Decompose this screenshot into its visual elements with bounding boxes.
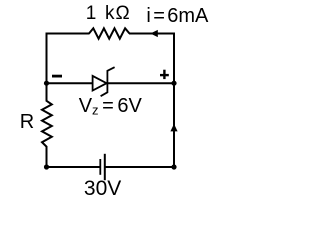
wire middle-left (zener anode side) bbox=[47, 82, 94, 84]
zener diode triangle bbox=[93, 76, 107, 91]
label minus (zener left polarity) bbox=[52, 75, 62, 78]
wire bottom-left segment bbox=[46, 166, 100, 168]
wire left vertical lower bbox=[46, 146, 48, 168]
wire top-right segment bbox=[129, 33, 175, 35]
arrowhead for current i (points left) bbox=[150, 30, 158, 37]
node junction right-middle bbox=[171, 81, 176, 86]
node junction left-middle bbox=[44, 81, 49, 86]
label R bbox=[20, 111, 34, 134]
zener diode cathode bar with bent ends bbox=[101, 67, 115, 96]
label 30V bbox=[84, 177, 121, 201]
wire top-left segment bbox=[46, 33, 90, 35]
label Vz = 6V bbox=[79, 95, 142, 118]
label plus (zener right polarity) bbox=[160, 74, 169, 76]
arrowhead up (right branch current) bbox=[170, 124, 177, 132]
resistor R (vertical zigzag) bbox=[42, 101, 52, 147]
wire middle-right (zener cathode side) bbox=[107, 82, 174, 84]
battery V1 negative plate (short bar) bbox=[99, 159, 101, 175]
resistor R1 1 kΩ (horizontal zigzag) bbox=[89, 28, 130, 38]
label 1 kΩ bbox=[86, 3, 131, 25]
battery V1 positive plate (long bar) bbox=[104, 154, 106, 180]
wire bottom-right segment bbox=[105, 166, 175, 168]
node junction left-bottom bbox=[44, 164, 49, 169]
label i = 6mA bbox=[146, 5, 208, 28]
wire right vertical bbox=[173, 33, 175, 169]
node junction right-bottom bbox=[171, 164, 176, 169]
wire left vertical upper bbox=[46, 33, 48, 102]
